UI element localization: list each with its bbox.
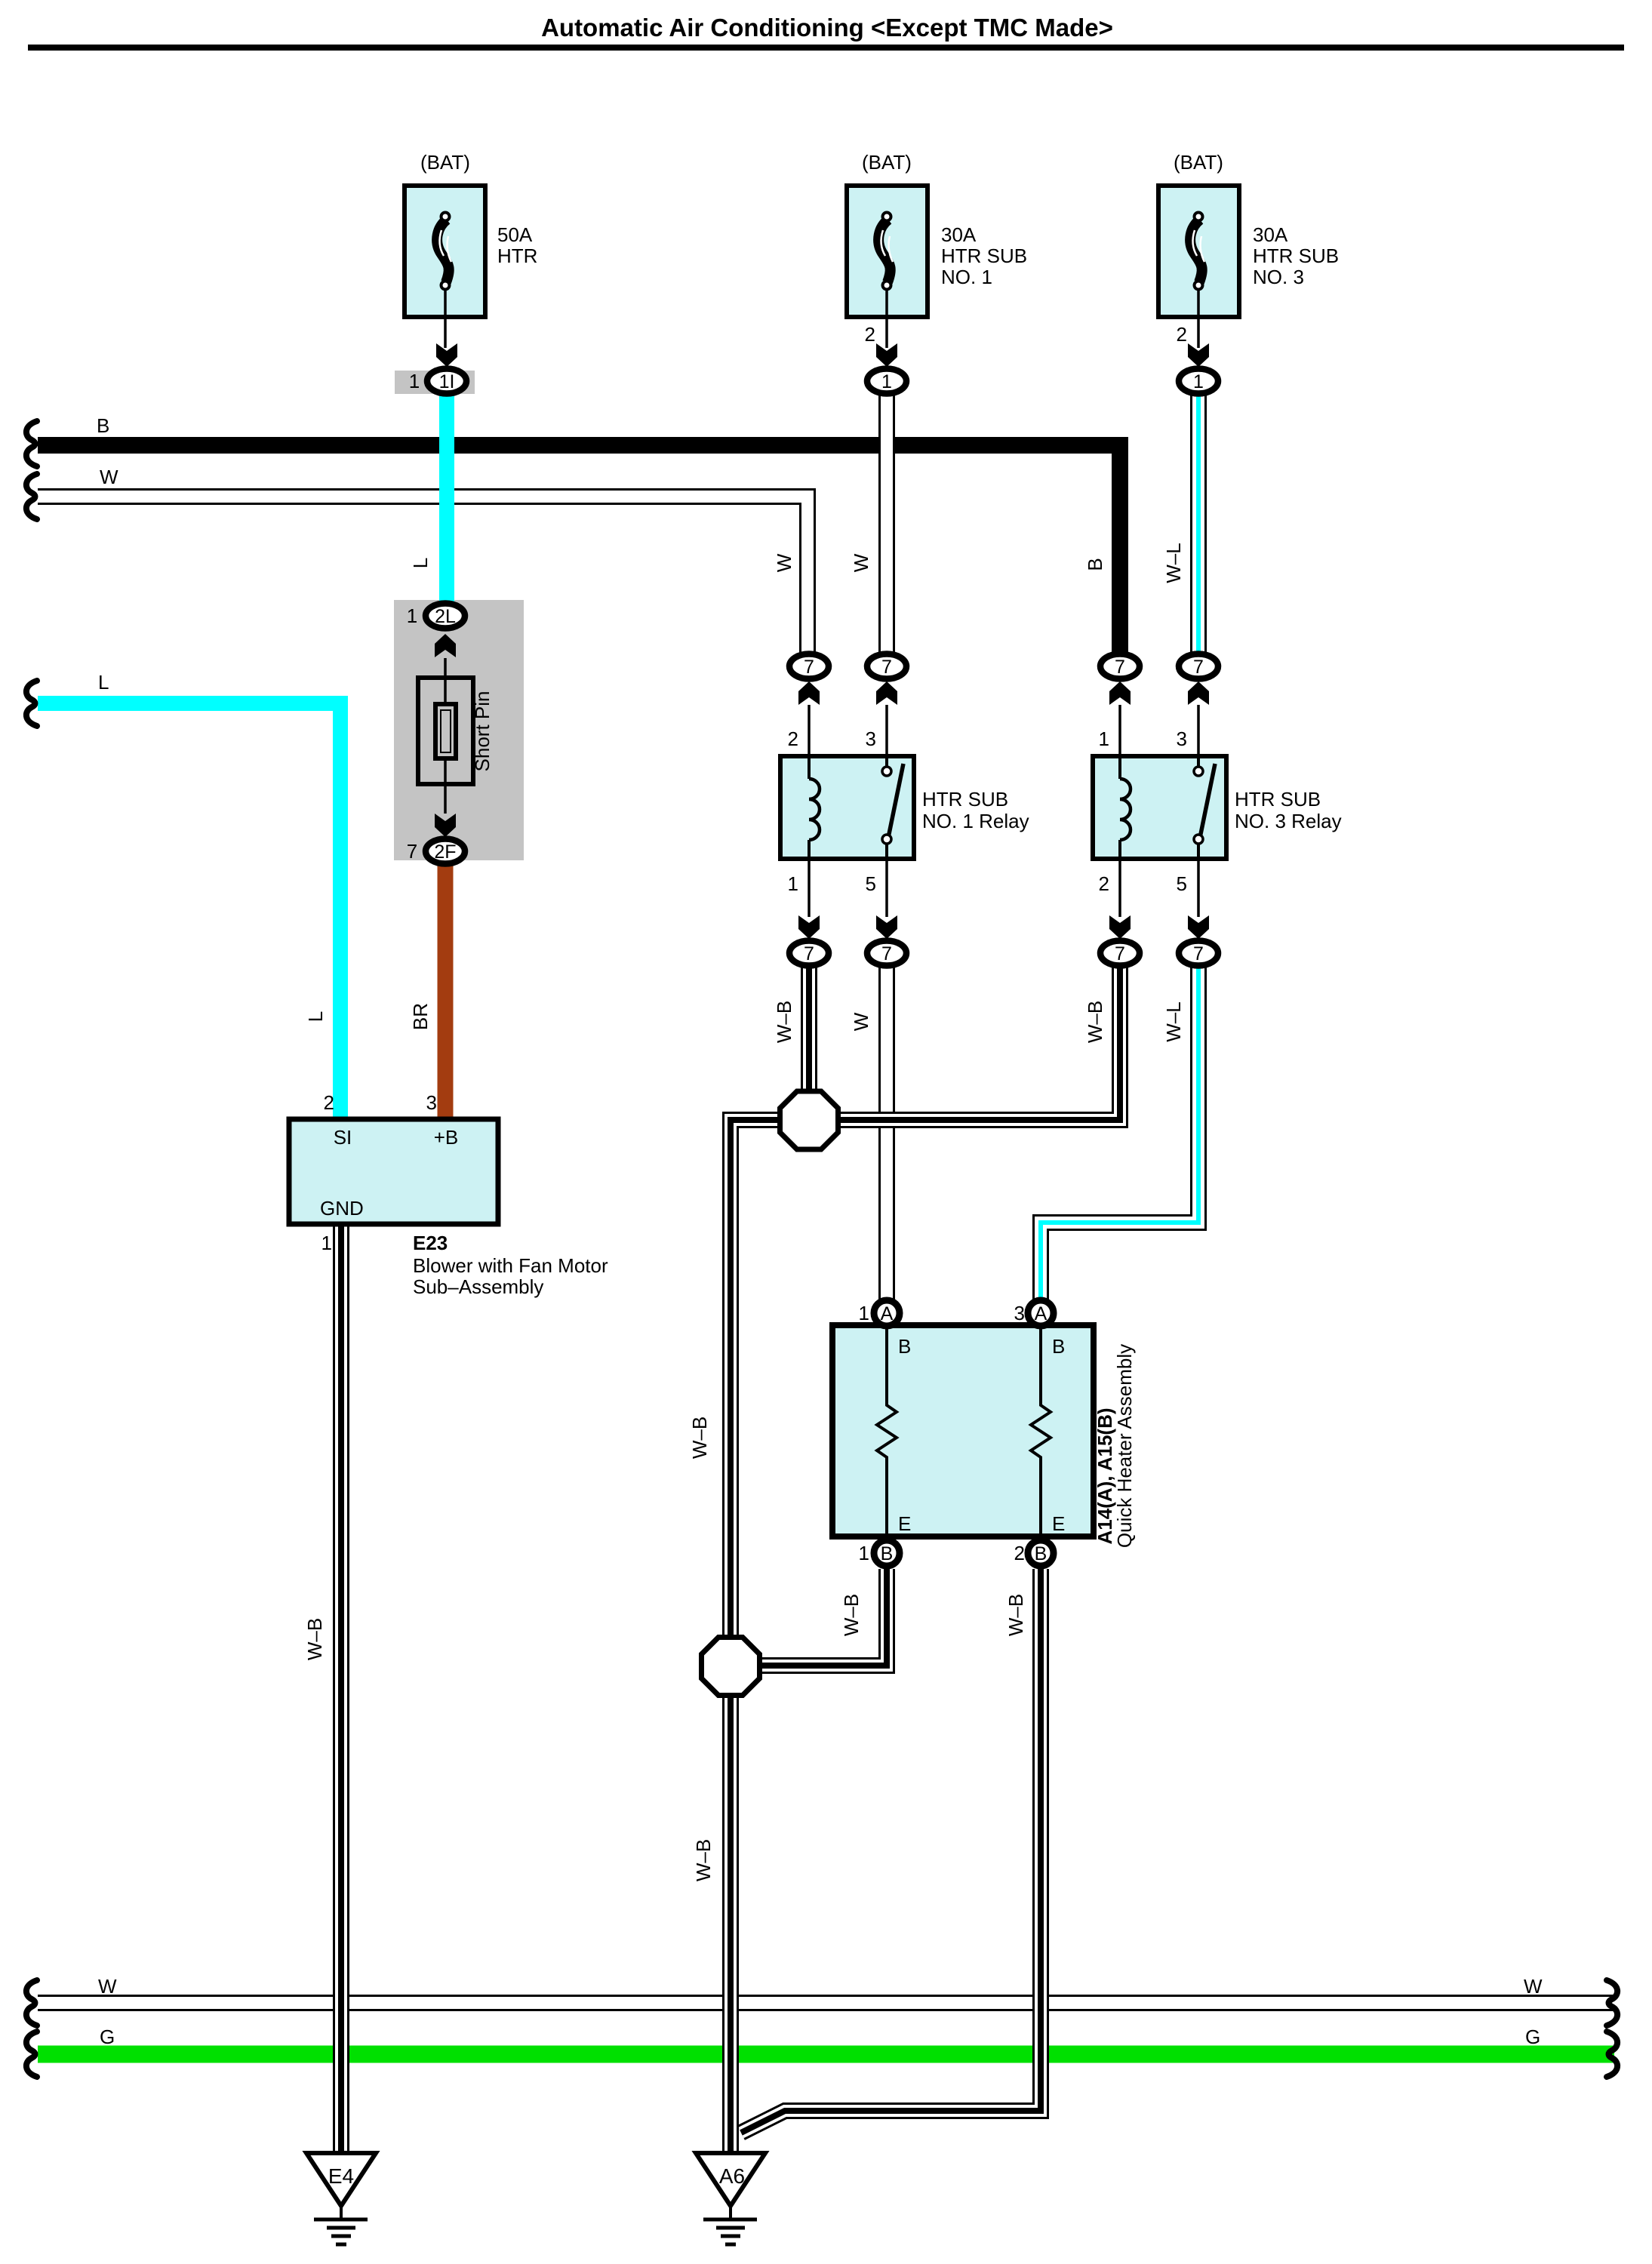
svg-text:2: 2 [865, 323, 875, 346]
svg-text:W: W [1524, 1975, 1543, 1998]
svg-text:3: 3 [1177, 727, 1187, 750]
svg-text:+B: +B [434, 1126, 459, 1149]
svg-text:50A: 50A [497, 223, 533, 246]
svg-text:W–B: W–B [688, 1417, 711, 1459]
svg-text:1I: 1I [439, 371, 455, 392]
svg-text:Sub–Assembly: Sub–Assembly [413, 1275, 543, 1298]
svg-text:NO. 1 Relay: NO. 1 Relay [922, 810, 1029, 832]
svg-text:(BAT): (BAT) [1174, 151, 1223, 174]
svg-text:L: L [409, 558, 432, 568]
svg-text:7: 7 [881, 943, 892, 964]
svg-text:(BAT): (BAT) [862, 151, 912, 174]
svg-text:E: E [1052, 1512, 1065, 1535]
svg-text:2: 2 [1177, 323, 1187, 346]
svg-text:1: 1 [859, 1302, 869, 1324]
svg-text:7: 7 [804, 943, 814, 964]
svg-text:2: 2 [788, 727, 798, 750]
svg-text:W: W [773, 553, 795, 572]
svg-text:7: 7 [407, 840, 417, 863]
svg-text:2: 2 [1014, 1542, 1025, 1564]
svg-text:E4: E4 [328, 2164, 354, 2188]
svg-text:W–B: W–B [1084, 1001, 1106, 1043]
svg-text:B: B [1035, 1543, 1047, 1564]
svg-text:G: G [1525, 2026, 1540, 2048]
svg-text:W: W [98, 1975, 117, 1998]
svg-text:B: B [1052, 1335, 1065, 1358]
svg-text:1: 1 [1099, 727, 1109, 750]
svg-text:Quick Heater Assembly: Quick Heater Assembly [1113, 1344, 1136, 1548]
svg-text:1: 1 [407, 604, 417, 627]
svg-text:W: W [100, 466, 118, 488]
svg-text:A: A [881, 1303, 894, 1324]
svg-text:1: 1 [409, 370, 420, 392]
svg-text:W–L: W–L [1162, 543, 1185, 583]
svg-text:GND: GND [320, 1197, 364, 1220]
svg-text:A: A [1035, 1303, 1047, 1324]
svg-text:30A: 30A [1253, 223, 1288, 246]
svg-text:Short Pin: Short Pin [471, 691, 494, 772]
svg-text:1: 1 [881, 371, 892, 392]
svg-text:W–B: W–B [1004, 1594, 1027, 1636]
svg-text:7: 7 [1193, 657, 1204, 678]
svg-text:3: 3 [426, 1091, 437, 1114]
svg-text:7: 7 [804, 657, 814, 678]
svg-text:B: B [898, 1335, 911, 1358]
svg-text:1: 1 [321, 1232, 332, 1254]
svg-text:1: 1 [788, 872, 798, 895]
svg-text:E23: E23 [413, 1232, 448, 1254]
svg-text:HTR SUB: HTR SUB [922, 788, 1008, 811]
svg-text:HTR SUB: HTR SUB [941, 245, 1027, 267]
svg-text:W–B: W–B [303, 1618, 326, 1660]
svg-text:HTR: HTR [497, 245, 537, 267]
svg-text:L: L [98, 671, 109, 694]
svg-text:5: 5 [866, 872, 876, 895]
svg-text:3: 3 [866, 727, 876, 750]
svg-text:3: 3 [1014, 1302, 1025, 1324]
svg-text:W–B: W–B [773, 1001, 795, 1043]
svg-text:2: 2 [1099, 872, 1109, 895]
svg-text:W: W [850, 1012, 872, 1031]
svg-text:2L: 2L [435, 606, 456, 627]
svg-text:A6: A6 [719, 2164, 745, 2188]
svg-text:Blower with Fan Motor: Blower with Fan Motor [413, 1254, 608, 1277]
svg-text:2F: 2F [434, 841, 456, 863]
svg-text:NO. 1: NO. 1 [941, 266, 992, 288]
svg-text:HTR SUB: HTR SUB [1253, 245, 1339, 267]
svg-text:5: 5 [1177, 872, 1187, 895]
svg-text:1: 1 [1193, 371, 1204, 392]
svg-text:SI: SI [334, 1126, 352, 1149]
svg-text:BR: BR [409, 1003, 432, 1030]
svg-text:W–L: W–L [1162, 1001, 1185, 1041]
svg-text:1: 1 [859, 1542, 869, 1564]
svg-text:B: B [881, 1543, 894, 1564]
svg-text:B: B [1084, 558, 1106, 571]
svg-text:7: 7 [1193, 943, 1204, 964]
svg-text:L: L [304, 1011, 327, 1022]
svg-text:30A: 30A [941, 223, 977, 246]
svg-text:G: G [100, 2026, 115, 2048]
svg-text:(BAT): (BAT) [420, 151, 470, 174]
svg-text:W–B: W–B [840, 1594, 863, 1636]
svg-text:7: 7 [1115, 657, 1125, 678]
svg-text:Automatic Air Conditioning <Ex: Automatic Air Conditioning <Except TMC M… [541, 14, 1113, 42]
svg-text:W: W [850, 553, 872, 572]
svg-text:HTR SUB: HTR SUB [1235, 788, 1321, 811]
svg-text:NO. 3 Relay: NO. 3 Relay [1235, 810, 1342, 832]
svg-text:2: 2 [324, 1091, 334, 1114]
svg-text:NO. 3: NO. 3 [1253, 266, 1304, 288]
svg-text:B: B [97, 414, 109, 437]
svg-text:E: E [898, 1512, 911, 1535]
svg-text:W–B: W–B [692, 1839, 715, 1881]
svg-text:7: 7 [881, 657, 892, 678]
svg-text:7: 7 [1115, 943, 1125, 964]
